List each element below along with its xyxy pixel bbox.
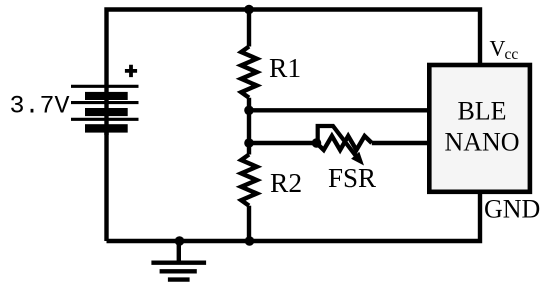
wire: FSR tap to FSR: [249, 141, 317, 145]
svg-text:V: V: [490, 36, 506, 61]
wire: FSR right lead to BLE box: [372, 141, 429, 145]
svg-text:GND: GND: [484, 195, 540, 224]
label BLE NANO: [444, 97, 519, 157]
wire: battery bottom to bottom rail: [104, 131, 108, 241]
resistor R2: [241, 155, 257, 206]
svg-text:R2: R2: [270, 167, 302, 198]
svg-text:NANO: NANO: [444, 128, 519, 157]
BLE NANO box U1: [429, 65, 530, 192]
wire: R2 bottom lead: [247, 206, 251, 241]
svg-text:3.7V: 3.7V: [10, 92, 70, 121]
node: FSR tap junction: [244, 138, 254, 148]
FSR actuation arrow: [318, 126, 364, 166]
battery BT1 (3 cells): [71, 86, 139, 132]
battery plus sign: [125, 65, 137, 77]
wire: bottom rail from battery to BLE box bottom corner: [107, 192, 481, 241]
svg-text:FSR: FSR: [328, 163, 376, 193]
wire: battery internal stem: [104, 86, 108, 135]
label Vcc: [490, 36, 519, 63]
svg-text:cc: cc: [505, 46, 519, 63]
wire: R1 bottom to R2 top vertical segment: [247, 98, 251, 155]
node: FSR left terminal: [312, 138, 322, 148]
node: top junction: [244, 5, 254, 15]
ground: [151, 241, 206, 280]
wire: R1 top lead: [247, 10, 251, 47]
svg-text:R1: R1: [269, 52, 301, 83]
node: R2 bottom junction: [245, 236, 255, 246]
resistor FSR body (zigzag): [317, 136, 372, 150]
svg-text:BLE: BLE: [457, 97, 506, 126]
wire: top rail from battery top-left corner to BLE box corner: [107, 10, 481, 87]
wire: divider tap to BLE box (analog in): [249, 108, 429, 112]
node: R1/R2 divider junction: [244, 106, 254, 116]
resistor R1: [241, 47, 257, 98]
node: ground junction: [175, 236, 185, 246]
